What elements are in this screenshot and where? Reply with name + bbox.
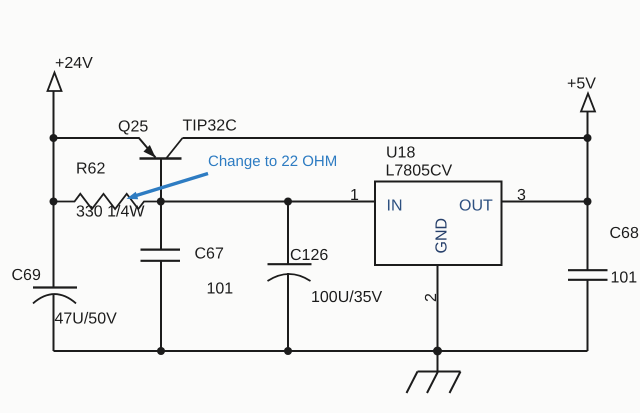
svg-text:C126: C126 [290,247,328,264]
capacitor C67 [141,202,181,352]
svg-text:GND: GND [434,218,451,254]
power symbol +24V [48,73,62,92]
node top-rail/+5V junction [584,134,592,142]
svg-text:U18: U18 [386,145,415,162]
node C67 bottom junction [157,347,165,355]
svg-text:C68: C68 [610,225,639,242]
power symbol +5V [581,94,595,112]
svg-text:+5V: +5V [567,76,596,93]
wire top rail left segment [54,137,140,139]
node C126 top junction [284,198,292,206]
wire +24V stub [53,91,55,138]
node C126 bottom junction [284,347,292,355]
wire left rail down to R62 [53,138,55,202]
svg-text:101: 101 [611,270,638,287]
svg-text:101: 101 [207,281,234,298]
svg-text:OUT: OUT [459,198,493,215]
svg-text:100U/35V: 100U/35V [311,289,382,306]
capacitor C126 [268,202,312,352]
node GND junction [433,347,442,356]
wire mid rail C126 to U18 pin1 [288,201,375,203]
svg-text:L7805CV: L7805CV [386,163,453,180]
svg-text:3: 3 [517,187,526,204]
svg-text:TIP32C: TIP32C [183,118,237,135]
svg-text:Change to 22 OHM: Change to 22 OHM [208,153,337,170]
transistor Q25 [139,138,183,202]
svg-text:2: 2 [423,293,440,302]
wire top rail right segment [183,137,588,139]
node pin3/+5V junction [584,198,592,206]
svg-text:1: 1 [350,187,359,204]
svg-text:+24V: +24V [55,55,93,72]
resistor R62 [54,194,161,209]
svg-text:47U/50V: 47U/50V [55,311,118,328]
node +24V/top-rail junction [50,134,58,142]
svg-text:Q25: Q25 [118,119,148,136]
wire pin3 U18 to +5V rail [502,201,588,203]
capacitor C69 [33,202,77,352]
wire +5V rail lower [587,280,589,351]
svg-text:330 1/4W: 330 1/4W [76,204,145,221]
wire +5V rail upper [587,112,589,271]
annotation arrow blue [127,174,209,200]
svg-text:C67: C67 [195,246,224,263]
regulator U18 box [375,182,502,266]
node R62 left junction [50,198,58,206]
svg-text:C69: C69 [12,267,41,284]
wire U18 GND pin 2 [437,265,439,351]
wire bottom rail [54,350,588,352]
wire GND stub [437,351,439,372]
ground chassis symbol [407,372,461,394]
svg-text:R62: R62 [76,161,105,178]
svg-text:IN: IN [387,198,403,215]
capacitor C68 [568,270,608,280]
wire mid rail R62 node to C126 [161,201,288,203]
node base/R62/C67 junction [157,198,165,206]
